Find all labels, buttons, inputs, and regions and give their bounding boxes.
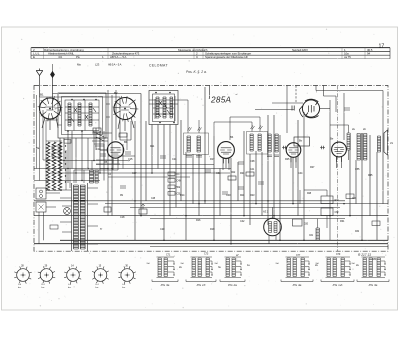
header column ticks [44, 48, 366, 59]
header table rule 3 [31, 54, 390, 56]
svg-text:CELOMAT: CELOMAT [149, 64, 168, 68]
bandswitch frame [46, 141, 62, 191]
small winding above transformer [90, 170, 94, 183]
tube socket 1 key [22, 274, 24, 276]
svg-text:AZ 1: AZ 1 [263, 210, 269, 214]
svg-text:R25: R25 [285, 157, 290, 161]
svg-text:PG 3a: PG 3a [369, 283, 378, 287]
small component boxes mid-left [52, 146, 61, 150]
oscillator winding a [156, 97, 159, 118]
tube B6 inner detail [309, 105, 315, 113]
svg-text:ca 75: ca 75 [344, 55, 351, 59]
extra wires around B3 [92, 133, 135, 169]
IFT2 winding b [258, 134, 261, 151]
coil detail block PG 3a terminals [168, 261, 174, 275]
svg-text:R19: R19 [210, 227, 215, 231]
antenna coil winding c [89, 103, 92, 126]
output transformer core lines [362, 133, 363, 161]
power transformer secondary winding [80, 185, 85, 249]
mains plug block upper [36, 188, 46, 199]
bandswitch coil b [52, 142, 56, 190]
grid stopper blob [282, 146, 287, 149]
bus wire y200 [34, 200, 345, 202]
tube B5 pins [291, 157, 296, 168]
choke connections [300, 190, 327, 240]
coil detail block PG 4a frame [286, 257, 310, 278]
coil detail block PG 13 terminals [210, 261, 212, 275]
svg-text:b.o.: b.o. [68, 287, 72, 289]
svg-text:17: 17 [379, 44, 385, 50]
bus wire y218 [150, 218, 345, 220]
antenna coil box outer [58, 93, 106, 138]
coil detail block PG 3a windings [363, 258, 366, 277]
svg-text:R27: R27 [310, 165, 315, 169]
svg-text:B1: B1 [40, 93, 44, 97]
oscillator winding b [163, 97, 166, 118]
bus wire y215 [34, 215, 388, 217]
svg-text:R11: R11 [150, 144, 155, 148]
small res box far right [346, 194, 354, 199]
svg-text:C15: C15 [128, 157, 133, 161]
svg-text:R21: R21 [240, 171, 245, 175]
coil detail block PG 13 frame [191, 257, 213, 278]
speaker winding [378, 136, 381, 152]
tube socket 1 pin stubs [14, 266, 31, 283]
bus wire y246 [150, 246, 388, 248]
junction dots [107, 168, 109, 170]
mains plug pins [40, 190, 43, 193]
svg-text:b.o.: b.o. [122, 287, 126, 289]
tube socket diagram 5 circle [121, 269, 134, 282]
svg-text:PG 13: PG 13 [197, 283, 206, 287]
IFT1 primary winding [187, 136, 190, 152]
wire B6 anode [320, 108, 330, 110]
svg-text:AB 5 A — 5 A: AB 5 A — 5 A [110, 55, 126, 59]
left column wires [37, 95, 59, 169]
tube B6 envelope with flares [302, 100, 319, 117]
coil detail block PG 3a frame [362, 257, 386, 278]
tube socket 3 key [72, 274, 74, 276]
coil detail block PG 3a frame [157, 257, 175, 278]
mains switch detail [39, 205, 44, 210]
tube socket 2 key [46, 274, 48, 276]
coil detail block PG 3a terminals [381, 261, 385, 275]
svg-text:C44: C44 [298, 171, 303, 175]
misc small component marks [120, 156, 244, 188]
extra left horizontals [46, 160, 130, 162]
output transformer primary [357, 134, 360, 161]
HT bus double line lower [34, 243, 388, 245]
coil detail block PG 13 bracket [186, 280, 216, 282]
coil detail block PG 4a bracket [281, 280, 313, 282]
IF transformer 3 windings [268, 134, 271, 152]
svg-text:L23: L23 [95, 62, 100, 66]
HT bus double line upper [60, 239, 388, 241]
caps and resistors above rectifier [228, 176, 236, 180]
coil detail block PG mb bracket [321, 280, 354, 282]
rectifier internal anodes [269, 222, 272, 233]
coil detail block PG 4a terminals [305, 261, 309, 275]
svg-text:Spannungswerte der Filterkreis: Spannungswerte der Filterkreise HF [205, 55, 248, 59]
tube socket diagram 4 circle [94, 269, 107, 282]
trimmer arrows in coil box [71, 108, 96, 122]
svg-text:C17: C17 [132, 171, 137, 175]
power transformer core [72, 183, 88, 251]
tube socket 4 key [100, 274, 102, 276]
coil detail block PG mb terminals [345, 261, 350, 275]
svg-text:R23: R23 [250, 193, 255, 197]
chassis dash-dot border [34, 86, 388, 252]
earth lead wire [52, 64, 54, 72]
wire verticals above IFT [149, 100, 260, 140]
bus wire y207 [130, 206, 340, 208]
oscillator box dots [155, 92, 157, 94]
IFT3 caps [267, 155, 279, 157]
wave switch contacts [96, 133, 104, 141]
oscillator inner mesh [149, 96, 178, 121]
IFT2 winding a [250, 134, 253, 151]
tube socket 4 pin stubs [92, 267, 109, 284]
svg-text:E: E [33, 55, 35, 59]
coil detail block PG 3a bracket [152, 280, 178, 282]
antenna coil box inner [62, 97, 103, 135]
earth terminal symbol [51, 72, 55, 78]
svg-text:AB 5 A ~ 5 A: AB 5 A ~ 5 A [108, 62, 122, 66]
IFT2 trimmer arrows [251, 126, 263, 130]
fuse box [50, 225, 58, 229]
svg-text:C21: C21 [172, 157, 177, 161]
antenna symbol [36, 69, 43, 76]
wire verticals center [135, 86, 383, 244]
dashed stub wire x296 [295, 86, 297, 104]
tube socket 5 key [126, 274, 128, 276]
svg-text:R 217 13: R 217 13 [358, 253, 371, 257]
svg-text:R14: R14 [180, 193, 185, 197]
coil detail block PG 13 windings [192, 258, 195, 277]
header table right edge [389, 48, 391, 59]
antenna coil winding a [68, 103, 71, 126]
coil detail block PG mb frame [326, 257, 351, 278]
svg-text:PG 4a: PG 4a [293, 283, 302, 287]
wire verticals between B1 and B2 [108, 90, 120, 216]
choke connect [330, 125, 349, 160]
pot symbol [139, 209, 147, 214]
wire top right loop [255, 86, 383, 241]
svg-text:R31: R31 [340, 219, 345, 223]
cap marks near B3 [100, 152, 131, 156]
oscillator coil box outer [149, 91, 178, 125]
output transformer secondary [364, 134, 367, 161]
svg-text:C31: C31 [216, 171, 221, 175]
coil detail block PG 2a windings [226, 258, 229, 277]
speaker frame [384, 130, 388, 155]
antenna down-lead wire [39, 76, 41, 98]
internal shield partition (dash) [337, 86, 339, 252]
tube B2 top-view envelope [114, 98, 136, 120]
resistor box top right [294, 137, 310, 146]
rectifier tube AZ1 envelope [264, 218, 282, 236]
bus wire y177 [108, 176, 190, 178]
svg-text:C38: C38 [250, 159, 255, 163]
coil detail block PG 2a frame [225, 257, 242, 278]
volume control boxes with labels [168, 172, 175, 176]
mains switch block [36, 202, 46, 212]
svg-text:LS: LS [390, 141, 393, 145]
svg-text:94: 94 [367, 52, 371, 56]
left area wires [34, 97, 108, 190]
svg-text:C40: C40 [226, 193, 231, 197]
junction dots left field [59, 180, 60, 181]
cap symbol right [344, 108, 350, 110]
IF transformer 2 enclosure [247, 132, 268, 155]
power transformer taps [60, 188, 98, 244]
coil detail block PG 2a bracket [220, 280, 245, 282]
transformer top connection [74, 160, 118, 183]
svg-text:C42: C42 [240, 219, 245, 223]
tube B3 pin leads [113, 158, 118, 170]
tube Be pins [337, 157, 342, 168]
svg-text:Tr: Tr [100, 227, 102, 231]
IFT1 secondary winding [197, 136, 200, 152]
tube B4 envelope [218, 142, 235, 159]
tube B4 pins [223, 158, 229, 170]
tube B1 pin wires [42, 117, 58, 130]
svg-text:b.o.: b.o. [18, 287, 22, 289]
power transformer primary winding [74, 185, 79, 249]
oscillator winding c [170, 97, 173, 118]
coil box drop wires [60, 131, 104, 183]
svg-text:b.o.: b.o. [96, 287, 100, 289]
svg-text:PG mb: PG mb [333, 283, 343, 287]
header table left edge [30, 48, 32, 59]
tube Be envelope [332, 142, 347, 157]
rectifier pins [269, 207, 276, 243]
svg-text:C18: C18 [120, 215, 125, 219]
svg-text:C55: C55 [355, 167, 360, 171]
electrolytic caps right [293, 219, 303, 226]
IF transformer 1 enclosure [184, 133, 209, 155]
antenna coil box inner2 [65, 100, 99, 131]
svg-text:R17: R17 [210, 157, 215, 161]
svg-text:Netzteil 220V: Netzteil 220V [292, 48, 308, 52]
coil detail block PG 3a windings [158, 258, 161, 277]
IFT1 internal caps [186, 156, 202, 158]
choke right of B6 [347, 133, 350, 150]
IFT1 trimmer arrows above [188, 127, 202, 131]
tube socket 3 pin stubs [64, 267, 81, 284]
tube socket 5 pin stubs [118, 266, 135, 283]
antenna coil box mesh [58, 100, 110, 131]
wire bus above tubes [40, 94, 142, 98]
coil detail block PG 4a windings [287, 258, 290, 277]
extra mid-left wiring [94, 121, 131, 164]
tube socket diagram 2 circle [40, 269, 53, 282]
bandswitch coil c [58, 142, 62, 190]
trimmer cap near B6 [292, 106, 294, 111]
resistor boxes mid-left [93, 128, 101, 132]
tube B5 envelope [286, 143, 301, 158]
mains cord wires [39, 193, 60, 244]
tube socket diagram 3 circle [67, 269, 80, 282]
svg-text:R16: R16 [196, 218, 201, 222]
oscillator trimmer marks [158, 101, 170, 117]
header table rule 2 [31, 51, 390, 53]
bus wire y173 [50, 172, 230, 174]
small box left-mid column [104, 207, 111, 212]
tube B1 top-view envelope [40, 98, 61, 119]
switch contact dots [65, 145, 66, 146]
pilot lamp [64, 208, 71, 215]
padder capacitor under coil box [64, 140, 71, 144]
coil box junction dots [71, 99, 73, 101]
field coil choke [316, 228, 319, 240]
coil detail block PG 2a terminals [236, 261, 241, 275]
bus wire y168 [100, 168, 231, 170]
svg-text:R35: R35 [368, 173, 373, 177]
svg-text:B2: B2 [114, 91, 118, 95]
tube B2 pins [118, 118, 134, 132]
header table rule bottom [31, 58, 390, 60]
coil detail block PG 3a bracket [357, 280, 389, 282]
svg-text:C20: C20 [160, 227, 165, 231]
svg-text:Pa: Pa [76, 55, 80, 59]
antenna coil winding b [78, 103, 81, 126]
tube socket diagram 1 circle [17, 269, 30, 282]
header table rule top [31, 47, 390, 49]
svg-text:285A: 285A [210, 95, 232, 104]
svg-text:Ma: Ma [77, 62, 81, 66]
tube B3 envelope [107, 142, 123, 158]
svg-text:b.o.: b.o. [42, 287, 46, 289]
bus wire y203 [105, 203, 388, 205]
svg-text:PG 2a: PG 2a [228, 283, 237, 287]
oscillator coil box inner [153, 94, 175, 122]
svg-text:PG 3a: PG 3a [161, 283, 170, 287]
coil detail block PG mb windings [327, 258, 330, 277]
svg-text:C12: C12 [96, 147, 101, 151]
svg-text:Messwerte und Abgleich: Messwerte und Abgleich [178, 48, 208, 52]
bandswitch coil a [46, 142, 50, 190]
tube socket 2 pin stubs [38, 266, 55, 283]
svg-text:Pos. K. §. 2 a.: Pos. K. §. 2 a. [186, 70, 207, 74]
tube B3 grid cap wire [100, 149, 107, 151]
